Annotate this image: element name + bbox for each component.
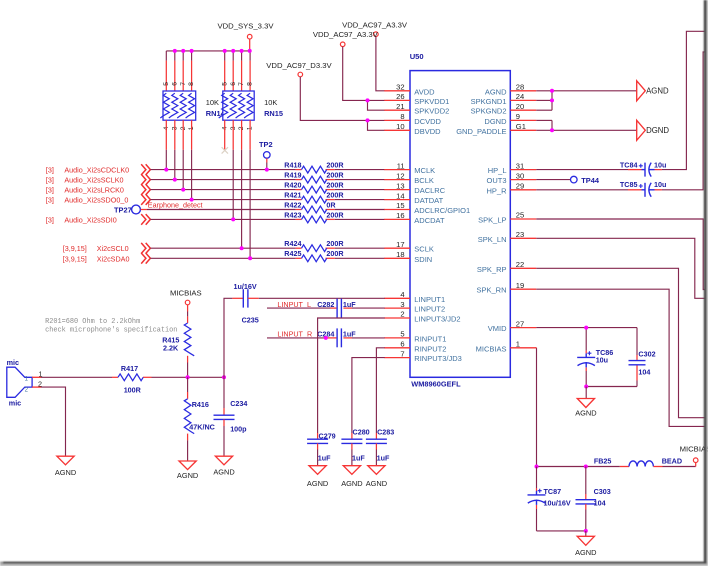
svg-text:DBVDD: DBVDD bbox=[414, 127, 441, 136]
svg-text:TC87: TC87 bbox=[544, 487, 562, 496]
ground symbol AGND under C283 bbox=[366, 466, 387, 488]
svg-text:C302: C302 bbox=[638, 349, 655, 358]
junction DCVDD branch bbox=[366, 118, 370, 122]
svg-text:C282: C282 bbox=[317, 300, 334, 309]
capacitor C234 100p bbox=[214, 377, 248, 456]
svg-text:5: 5 bbox=[221, 82, 228, 86]
net label Audio_Xi2sLRCK0 bbox=[46, 186, 124, 195]
RN14 pin numbers bbox=[163, 82, 195, 130]
svg-text:26: 26 bbox=[396, 92, 404, 101]
svg-text:13: 13 bbox=[396, 181, 404, 190]
svg-text:[3]: [3] bbox=[46, 186, 54, 195]
wire C235 to LINPUT1 bbox=[259, 297, 385, 299]
svg-text:8: 8 bbox=[400, 112, 404, 121]
junction TC86 bottom bbox=[584, 385, 588, 389]
resistor R420 200R bbox=[284, 181, 344, 194]
wire Audio_Xi2sSCLK0 bus bbox=[150, 179, 295, 181]
svg-text:mic: mic bbox=[7, 358, 19, 367]
svg-text:Audio_Xi2sSDO0_0: Audio_Xi2sSDO0_0 bbox=[64, 196, 128, 205]
wire mic node to C235 bbox=[224, 298, 232, 377]
wire MICBIAS pin 1 bbox=[536, 348, 620, 467]
svg-text:200R: 200R bbox=[326, 210, 344, 219]
net label LINPUT_L bbox=[277, 300, 356, 309]
svg-text:1u/16V: 1u/16V bbox=[234, 282, 257, 291]
off-page connector Audio_Xi2sSDI0 bbox=[141, 214, 150, 225]
wire Audio_Xi2sLRCK0 bus bbox=[150, 189, 295, 191]
svg-text:31: 31 bbox=[516, 161, 524, 170]
svg-text:9: 9 bbox=[516, 112, 520, 121]
svg-text:[3]: [3] bbox=[46, 176, 54, 185]
svg-text:AGND: AGND bbox=[366, 479, 387, 488]
ground symbol AGND bottom right bbox=[575, 536, 596, 557]
svg-text:AGND: AGND bbox=[213, 468, 234, 477]
svg-text:AGND: AGND bbox=[485, 87, 507, 96]
svg-text:21: 21 bbox=[396, 102, 404, 111]
capacitor C280 1uF bbox=[341, 428, 369, 466]
capacitor C235 1u/16V bbox=[232, 282, 258, 324]
svg-text:SCLK: SCLK bbox=[414, 245, 434, 254]
wire Earphone_detect bbox=[147, 209, 296, 211]
capacitor C279 bbox=[307, 439, 328, 443]
svg-text:R423: R423 bbox=[284, 210, 301, 219]
wire RINPUT3/JD3 to C280 bbox=[352, 358, 385, 440]
svg-text:check microphone's specificati: check microphone's specification bbox=[45, 327, 177, 335]
svg-text:10: 10 bbox=[396, 122, 404, 131]
svg-text:TP44: TP44 bbox=[581, 176, 600, 185]
wire SPK_LP bbox=[536, 219, 704, 290]
svg-text:10u: 10u bbox=[654, 160, 666, 169]
svg-text:5: 5 bbox=[400, 330, 404, 339]
capacitor C280 bbox=[341, 439, 362, 443]
power symbol VDD_AC97_A3.3V (SPKVDD) bbox=[313, 30, 379, 47]
svg-text:[3]: [3] bbox=[46, 215, 54, 224]
svg-text:VDD_AC97_D3.3V: VDD_AC97_D3.3V bbox=[266, 61, 332, 70]
capacitor C303 bbox=[576, 500, 597, 504]
svg-text:DATDAT: DATDAT bbox=[414, 196, 443, 205]
svg-text:AVDD: AVDD bbox=[414, 87, 435, 96]
net label Audio_Xi2sSCLK0 bbox=[46, 176, 124, 185]
connector MICBIAS output bbox=[663, 444, 708, 466]
svg-text:200R: 200R bbox=[326, 161, 344, 170]
svg-text:19: 19 bbox=[516, 281, 524, 290]
svg-text:200R: 200R bbox=[326, 249, 344, 258]
label RN14 value 10K bbox=[206, 98, 226, 118]
junction VMID/TC86 bbox=[584, 326, 588, 330]
net label Audio_Xi2sSDI0 bbox=[46, 215, 117, 224]
svg-text:VDD_AC97_A3.3V: VDD_AC97_A3.3V bbox=[342, 21, 408, 30]
svg-text:MICBIAS: MICBIAS bbox=[476, 344, 507, 353]
net label LINPUT_R bbox=[277, 330, 356, 339]
svg-text:Audio_Xi2sLRCK0: Audio_Xi2sLRCK0 bbox=[64, 186, 124, 195]
svg-text:[3,9,15]: [3,9,15] bbox=[63, 254, 87, 263]
resistor R418 200R bbox=[284, 161, 344, 174]
svg-text:SPK_LP: SPK_LP bbox=[478, 216, 506, 225]
ground symbol AGND under C234 bbox=[213, 456, 234, 477]
power symbol VDD_AC97_A3.3V (AVDD) bbox=[342, 21, 408, 37]
wire Xi2cSDA0 bus bbox=[150, 257, 295, 259]
ground symbol AGND under TC86 bbox=[575, 399, 596, 418]
wire VDD_AC97_A3.3V to SPKVDD1/SPKVDD2 bbox=[343, 47, 385, 111]
resistor R415 zigzag bbox=[184, 323, 194, 356]
net label Audio_Xi2sCDCLK0 bbox=[46, 166, 129, 175]
ground symbol AGND under C279 bbox=[307, 466, 328, 488]
svg-text:1uF: 1uF bbox=[377, 454, 390, 463]
wire Audio_Xi2sSDO0_0 bus bbox=[150, 199, 295, 201]
wire Audio_Xi2sSDI0 bus bbox=[150, 218, 295, 220]
svg-text:104: 104 bbox=[594, 499, 606, 508]
wire R418 to U50 bbox=[335, 169, 385, 171]
svg-text:HP_R: HP_R bbox=[486, 186, 507, 195]
svg-text:1uF: 1uF bbox=[318, 454, 331, 463]
svg-text:MICBIAS: MICBIAS bbox=[170, 289, 202, 298]
svg-text:10K: 10K bbox=[264, 98, 277, 107]
connector mic bbox=[7, 358, 32, 407]
resistor network RN14 10K bbox=[160, 91, 195, 120]
svg-text:OUT3: OUT3 bbox=[486, 176, 506, 185]
svg-text:MICBIAS: MICBIAS bbox=[680, 444, 708, 453]
wire LINPUT_R bbox=[267, 337, 336, 339]
svg-text:R422: R422 bbox=[284, 200, 301, 209]
wire R419 to U50 bbox=[335, 179, 385, 181]
svg-text:[3]: [3] bbox=[46, 166, 54, 175]
svg-text:R417: R417 bbox=[121, 364, 138, 373]
capacitor TC85 10u bbox=[639, 183, 655, 197]
off-page connector Xi2cSCL0 bbox=[141, 243, 150, 254]
svg-text:2.2K: 2.2K bbox=[163, 344, 179, 353]
wire HP_R output bbox=[655, 52, 705, 190]
power symbol VDD_AC97_D3.3V bbox=[266, 61, 332, 77]
ground symbol AGND under C280 bbox=[341, 466, 362, 488]
svg-text:200R: 200R bbox=[326, 181, 344, 190]
wire Xi2cSCL0 bus bbox=[150, 247, 295, 249]
svg-text:AGND: AGND bbox=[177, 471, 198, 480]
svg-text:C280: C280 bbox=[353, 428, 370, 437]
svg-text:47K/NC: 47K/NC bbox=[189, 423, 215, 432]
svg-text:0R: 0R bbox=[326, 200, 336, 209]
svg-text:1uF: 1uF bbox=[352, 454, 365, 463]
svg-text:15: 15 bbox=[396, 201, 404, 210]
svg-text:LINPUT3/JD2: LINPUT3/JD2 bbox=[414, 315, 460, 324]
capacitor C283 1uF bbox=[366, 428, 394, 466]
svg-text:12: 12 bbox=[396, 171, 404, 180]
svg-text:HP_L: HP_L bbox=[488, 166, 507, 175]
svg-text:SPK_RP: SPK_RP bbox=[477, 265, 507, 274]
svg-text:30: 30 bbox=[516, 171, 524, 180]
RN15 pin numbers bbox=[221, 82, 253, 130]
wire R422 to U50 bbox=[335, 209, 385, 211]
svg-text:2: 2 bbox=[400, 310, 404, 319]
svg-text:8: 8 bbox=[188, 82, 195, 86]
power symbol MICBIAS (R415 top) bbox=[170, 289, 202, 305]
junction AGND bbox=[550, 98, 554, 102]
wire AGND net pins 28/24/20 bbox=[536, 91, 636, 110]
wire R425 to U50 bbox=[335, 257, 385, 259]
ground symbol AGND under R416 bbox=[177, 461, 198, 480]
ground symbol AGND right bbox=[637, 81, 669, 101]
test point TP2 bbox=[259, 140, 273, 170]
svg-text:MCLK: MCLK bbox=[414, 166, 435, 175]
wire R420 to U50 bbox=[335, 189, 385, 191]
svg-text:LINPUT_R: LINPUT_R bbox=[277, 330, 312, 339]
U50 right pins bbox=[456, 83, 536, 354]
svg-text:AGND: AGND bbox=[307, 479, 328, 488]
junction MICBIAS/C303 bbox=[584, 465, 588, 469]
svg-text:VDD_SYS_3.3V: VDD_SYS_3.3V bbox=[218, 21, 275, 30]
svg-text:R416: R416 bbox=[192, 400, 209, 409]
svg-text:LINPUT2: LINPUT2 bbox=[414, 305, 445, 314]
svg-text:10u: 10u bbox=[654, 180, 666, 189]
svg-text:7: 7 bbox=[400, 349, 404, 358]
resistor network RN15 10K bbox=[219, 91, 255, 120]
ferrite bead FB25 BEAD bbox=[594, 457, 682, 467]
svg-text:[3,9,15]: [3,9,15] bbox=[63, 244, 87, 253]
svg-text:AGND: AGND bbox=[55, 468, 76, 477]
junction DGND bbox=[550, 128, 554, 132]
svg-text:R425: R425 bbox=[284, 249, 301, 258]
svg-text:20: 20 bbox=[516, 102, 524, 111]
wire RINPUT2 to C283 bbox=[376, 348, 384, 439]
mic pin stubs bbox=[32, 370, 42, 389]
net label Xi2cSDA0 bbox=[63, 254, 130, 263]
net label Audio_Xi2sSDO0_0 bbox=[46, 196, 128, 205]
svg-text:VMID: VMID bbox=[488, 324, 507, 333]
svg-text:Earphone_detect: Earphone_detect bbox=[148, 201, 203, 210]
svg-text:29: 29 bbox=[516, 182, 524, 191]
svg-text:TC85: TC85 bbox=[620, 180, 638, 189]
svg-text:8: 8 bbox=[247, 82, 254, 86]
resistor R425 200R bbox=[284, 249, 344, 261]
wire HP_R to TC85 bbox=[536, 189, 641, 191]
svg-text:28: 28 bbox=[516, 83, 524, 92]
power symbol VDD_SYS_3.3V bbox=[218, 21, 275, 39]
wire TC87/C303 bottom bbox=[537, 530, 586, 532]
svg-text:LINPUT1: LINPUT1 bbox=[414, 295, 445, 304]
wire VDD_AC97_A3.3V to AVDD pin 32 bbox=[376, 37, 385, 91]
svg-text:ADCLRC/GPIO1: ADCLRC/GPIO1 bbox=[414, 206, 470, 215]
svg-text:G1: G1 bbox=[516, 122, 526, 131]
wire mic node bbox=[152, 376, 225, 378]
svg-text:ADCDAT: ADCDAT bbox=[414, 216, 445, 225]
svg-text:32: 32 bbox=[396, 83, 404, 92]
capacitor C282 1uF bbox=[337, 299, 352, 318]
svg-text:R421: R421 bbox=[284, 191, 301, 200]
wire VDD_SYS_3.3V drop to rail bbox=[249, 39, 251, 51]
svg-text:TP2: TP2 bbox=[259, 140, 273, 149]
resistor R419 200R bbox=[284, 171, 344, 184]
svg-text:R418: R418 bbox=[284, 161, 301, 170]
svg-text:1uF: 1uF bbox=[343, 300, 356, 309]
svg-text:AGND: AGND bbox=[575, 548, 596, 557]
svg-text:Audio_Xi2sSDI0: Audio_Xi2sSDI0 bbox=[64, 215, 116, 224]
svg-text:Audio_Xi2sCDCLK0: Audio_Xi2sCDCLK0 bbox=[64, 166, 129, 175]
capacitor TC84 10u bbox=[620, 160, 666, 176]
svg-text:AGND: AGND bbox=[646, 87, 669, 96]
svg-text:RINPUT1: RINPUT1 bbox=[414, 334, 446, 343]
svg-text:22: 22 bbox=[516, 260, 524, 269]
svg-text:FB25: FB25 bbox=[594, 457, 612, 466]
capacitor TC87 10u/16V branch bbox=[528, 467, 571, 531]
svg-text:BEAD: BEAD bbox=[662, 457, 682, 466]
wire C282 to LINPUT2 bbox=[352, 307, 385, 309]
wires RN14 pins down to bus rows bbox=[166, 120, 191, 199]
junction LINPUT_R bbox=[324, 336, 328, 340]
svg-text:C279: C279 bbox=[319, 431, 336, 440]
junction C234/C235 riser bbox=[222, 375, 226, 379]
wire SPK_RN bbox=[536, 289, 704, 426]
wire LINPUT3/JD2 to C279 bbox=[318, 318, 385, 439]
svg-text:16: 16 bbox=[396, 211, 404, 220]
svg-text:Audio_Xi2sSCLK0: Audio_Xi2sSCLK0 bbox=[64, 176, 123, 185]
junction SPKVDD1 branch bbox=[366, 98, 370, 102]
ground symbol AGND mic bbox=[55, 456, 76, 477]
resistor R422 0R bbox=[284, 200, 336, 213]
svg-text:DCVDD: DCVDD bbox=[414, 117, 441, 126]
junction MICBIAS/TC87 bbox=[535, 465, 539, 469]
svg-text:WM8960GEFL: WM8960GEFL bbox=[411, 380, 461, 389]
wire HP_L output bbox=[655, 31, 705, 169]
wire R423 to U50 bbox=[335, 218, 385, 220]
svg-text:C234: C234 bbox=[230, 399, 247, 408]
wire R424 to U50 bbox=[335, 247, 385, 249]
wires rail to RN14/RN15 pins bbox=[166, 51, 250, 91]
resistor R424 200R bbox=[284, 239, 344, 252]
svg-text:200R: 200R bbox=[326, 239, 344, 248]
svg-text:3: 3 bbox=[400, 300, 404, 309]
junction R415/R416 bbox=[186, 375, 190, 379]
svg-text:6: 6 bbox=[230, 82, 237, 86]
svg-text:TC84: TC84 bbox=[620, 160, 638, 169]
svg-text:6: 6 bbox=[171, 82, 178, 86]
capacitor TC87 bbox=[528, 489, 546, 505]
svg-text:C303: C303 bbox=[594, 487, 611, 496]
svg-text:C235: C235 bbox=[242, 315, 259, 324]
svg-text:DGND: DGND bbox=[646, 126, 669, 135]
capacitor C234 bbox=[214, 415, 235, 419]
resistor R423 200R bbox=[284, 210, 344, 223]
svg-text:RN15: RN15 bbox=[264, 109, 283, 118]
svg-text:DGND: DGND bbox=[484, 117, 507, 126]
svg-text:R420: R420 bbox=[284, 181, 301, 190]
off-page connector Audio_Xi2sSCLK0 bbox=[141, 174, 150, 185]
svg-text:23: 23 bbox=[516, 230, 524, 239]
svg-text:100p: 100p bbox=[230, 425, 247, 434]
svg-text:TP27: TP27 bbox=[114, 205, 132, 214]
capacitor C302 bbox=[629, 361, 646, 365]
svg-text:U50: U50 bbox=[410, 52, 424, 61]
svg-text:25: 25 bbox=[516, 211, 524, 220]
svg-text:27: 27 bbox=[516, 319, 524, 328]
junctions on bus rows bbox=[164, 168, 268, 261]
junctions on pull-up rail bbox=[173, 49, 252, 53]
capacitor C303 104 branch bbox=[576, 467, 611, 531]
svg-text:Xi2cSCL0: Xi2cSCL0 bbox=[97, 244, 129, 253]
svg-text:200R: 200R bbox=[326, 171, 344, 180]
capacitor C283 bbox=[366, 439, 387, 443]
wire pull-up rail VDD_SYS_3.3V bbox=[166, 50, 249, 52]
capacitor C279 1uF bbox=[307, 431, 336, 465]
svg-text:SDIN: SDIN bbox=[414, 255, 432, 264]
svg-text:RINPUT3/JD3: RINPUT3/JD3 bbox=[414, 354, 462, 363]
svg-text:GND_PADDLE: GND_PADDLE bbox=[456, 127, 506, 136]
resistor R421 200R bbox=[284, 191, 344, 204]
svg-text:14: 14 bbox=[396, 191, 404, 200]
svg-text:R419: R419 bbox=[284, 171, 301, 180]
capacitor TC84 10u bbox=[639, 163, 655, 177]
capacitor TC86 10u bbox=[577, 348, 613, 367]
wire VDD_AC97_D3.3V to DCVDD/DBVDD bbox=[300, 77, 385, 131]
off-page connector Audio_Xi2sLRCK0 bbox=[141, 184, 150, 195]
wire RN15 pin4 dangling bbox=[222, 120, 228, 153]
off-page connector Xi2cSDA0 bbox=[141, 253, 150, 264]
U50 left pins bbox=[384, 83, 470, 364]
svg-text:AGND: AGND bbox=[341, 479, 362, 488]
wire R421 to U50 bbox=[335, 199, 385, 201]
wire LINPUT_L bbox=[267, 307, 336, 309]
svg-text:24: 24 bbox=[516, 92, 524, 101]
capacitor TC85 10u bbox=[620, 180, 666, 197]
wire TC86 to AGND bbox=[585, 387, 587, 399]
svg-text:SPKVDD2: SPKVDD2 bbox=[414, 107, 449, 116]
svg-text:SPKGND1: SPKGND1 bbox=[471, 97, 507, 106]
net label Xi2cSCL0 bbox=[63, 244, 129, 253]
svg-text:R424: R424 bbox=[284, 239, 301, 248]
test point TP44 bbox=[536, 176, 600, 185]
svg-text:10u/16V: 10u/16V bbox=[544, 499, 571, 508]
wire mic pin1 to R417 bbox=[41, 376, 112, 378]
svg-text:104: 104 bbox=[638, 368, 650, 377]
capacitor TC86 bbox=[577, 351, 595, 367]
resistor R415 2.2K bbox=[162, 305, 194, 378]
wire VMID net bbox=[536, 328, 637, 387]
capacitor C302 104 bbox=[629, 349, 656, 376]
capacitor C284 1uF bbox=[337, 328, 352, 347]
svg-text:100R: 100R bbox=[124, 386, 142, 395]
resistor R417 100R bbox=[112, 364, 152, 395]
wire to bottom AGND bbox=[585, 531, 587, 536]
svg-text:AGND: AGND bbox=[575, 408, 596, 417]
svg-text:6: 6 bbox=[400, 340, 404, 349]
svg-text:10K: 10K bbox=[206, 98, 219, 107]
svg-text:1uF: 1uF bbox=[343, 330, 356, 339]
svg-text:C283: C283 bbox=[377, 428, 394, 437]
note text R201 bbox=[45, 318, 177, 335]
svg-text:10u: 10u bbox=[596, 355, 608, 364]
svg-text:1: 1 bbox=[516, 340, 520, 349]
off-page connector Audio_Xi2sSDO0_0 bbox=[141, 194, 150, 205]
svg-text:SPKGND2: SPKGND2 bbox=[471, 107, 507, 116]
svg-text:SPK_RN: SPK_RN bbox=[476, 286, 506, 295]
svg-text:5: 5 bbox=[163, 82, 170, 86]
svg-text:VDD_AC97_A3.3V: VDD_AC97_A3.3V bbox=[313, 30, 379, 39]
svg-text:mic: mic bbox=[9, 399, 21, 408]
svg-text:18: 18 bbox=[396, 250, 404, 259]
wires RN15 pins 3,2,1 down to bus rows bbox=[233, 120, 250, 258]
svg-text:LINPUT_L: LINPUT_L bbox=[277, 300, 311, 309]
wire mic pin2 ground bbox=[41, 387, 66, 456]
svg-text:RINPUT2: RINPUT2 bbox=[414, 344, 446, 353]
net label Earphone_detect bbox=[148, 201, 203, 210]
junction AGND bbox=[550, 89, 554, 93]
off-page connector Audio_Xi2sCDCLK0 bbox=[141, 164, 150, 175]
svg-text:7: 7 bbox=[238, 82, 245, 86]
ground symbol DGND right bbox=[637, 120, 670, 140]
svg-text:4: 4 bbox=[400, 290, 404, 299]
wire DGND net pins 9/G1 bbox=[536, 120, 636, 130]
svg-text:SPKVDD1: SPKVDD1 bbox=[414, 97, 449, 106]
svg-text:Xi2cSDA0: Xi2cSDA0 bbox=[97, 254, 130, 263]
op-amp / codec IC U50 WM8960GEFL body bbox=[410, 52, 511, 389]
svg-text:200R: 200R bbox=[326, 191, 344, 200]
